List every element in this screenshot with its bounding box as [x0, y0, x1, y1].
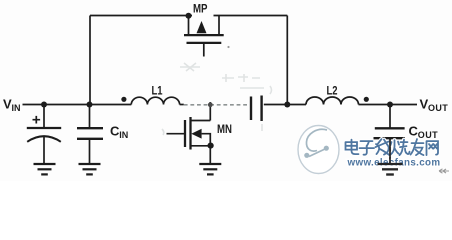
wire: faded rail L1 to flying cap (erased by watermark patch) — [180, 104, 184, 106]
MN drain lead — [191, 120, 211, 122]
CIN top plate — [77, 127, 103, 129]
svg-text:MN: MN — [217, 124, 232, 136]
capacitor COUT: top stub — [389, 105, 391, 128]
MP channel bar — [184, 34, 224, 36]
MN source lead — [191, 145, 211, 147]
ground (MN source) — [199, 164, 221, 174]
烧 — [391, 140, 410, 156]
ghost watermark remnants (erased center) — [162, 63, 272, 135]
electrolytic top plate — [27, 127, 61, 129]
stray arrow mark bottom right — [439, 169, 449, 173]
svg-text:L2: L2 — [327, 85, 338, 97]
COUT bottom stub — [389, 138, 391, 163]
MP junction dot — [186, 13, 192, 19]
MP drain stub — [218, 16, 220, 35]
svg-text:IN: IN — [119, 130, 128, 140]
L1 phasing dot — [121, 97, 126, 102]
COUT label — [409, 124, 439, 140]
svg-text:OUT: OUT — [418, 130, 438, 140]
electrolytic + sign — [33, 116, 41, 124]
MN ground stub — [209, 146, 211, 163]
CIN label — [110, 124, 128, 140]
MN channel bar — [189, 117, 191, 150]
wire: top loop right vertical — [286, 16, 288, 105]
COUT bottom plate — [374, 137, 406, 139]
transistor MN (NMOS, vertical) — [167, 102, 214, 163]
MN drain vertical — [209, 102, 211, 121]
MP body arrow — [197, 21, 207, 33]
MN body lead — [202, 134, 211, 146]
wire: rail L2 to VOUT — [359, 104, 418, 106]
svg-text:OUT: OUT — [428, 103, 448, 113]
COUT top plate — [375, 127, 405, 129]
junction dot at rail / CIN / top loop — [87, 102, 93, 108]
CIN bottom plate — [77, 138, 103, 140]
ground (COUT) — [378, 164, 403, 175]
MP gate bar — [187, 42, 222, 44]
wire: top loop upper right segment — [214, 15, 288, 17]
node VIN label — [3, 97, 21, 113]
电 — [346, 140, 359, 155]
watermark logo circle — [298, 126, 339, 174]
MN gate lead — [167, 133, 185, 135]
wire: rail right plate to L2 — [264, 104, 306, 106]
网 — [427, 141, 439, 155]
inductor L2 — [306, 97, 359, 104]
COUT stub redrawn over watermark — [389, 139, 391, 163]
MN gate bar — [184, 120, 186, 147]
electrolytic bottom stub — [43, 136, 45, 163]
svg-text:L1: L1 — [152, 85, 163, 97]
electrolytic curved plate — [27, 136, 61, 142]
junction dot at rail / left cap — [41, 102, 47, 108]
ground (electrolytic) — [34, 164, 56, 174]
capacitor C flying: left plate — [250, 97, 252, 121]
MP gate lead — [203, 44, 205, 57]
CIN bottom stub — [89, 139, 91, 163]
capacitor C flying: right plate — [260, 96, 262, 122]
子 — [360, 141, 375, 155]
junction dot at rail / top loop right — [284, 102, 290, 108]
svg-text:MP: MP — [193, 3, 208, 15]
COUT ground redrawn over watermark — [378, 164, 403, 175]
wire: top loop left vertical — [89, 16, 91, 105]
capacitor CIN: top stub — [89, 105, 91, 128]
junction dot at rail / COUT — [387, 102, 393, 108]
友 — [411, 139, 424, 155]
ground (CIN) — [79, 164, 101, 174]
stray gray dot center top — [227, 46, 229, 48]
MN drain faded junction dot — [208, 102, 213, 107]
transistor MP (PMOS, horizontal) — [184, 13, 224, 57]
MN source junction dot — [208, 143, 214, 149]
L2 phasing dot — [364, 97, 369, 102]
wire: main rail VIN to L1 — [23, 104, 132, 106]
MP source stub — [188, 16, 190, 35]
MN body arrow — [191, 129, 201, 139]
inductor L1 — [131, 97, 179, 104]
发 — [376, 139, 390, 155]
watermark chinese text 电子发烧友网 — [346, 139, 439, 155]
node VOUT label — [420, 97, 449, 113]
wire: top loop upper left segment — [90, 15, 192, 17]
svg-text:IN: IN — [12, 103, 21, 113]
capacitor input electrolytic: top stub — [43, 105, 45, 128]
